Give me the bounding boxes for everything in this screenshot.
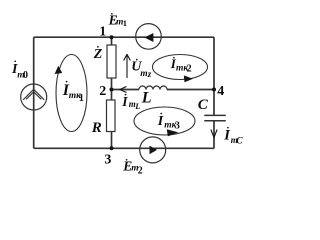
label I_mk1 mesh current	[62, 81, 84, 104]
source E_m1 circle (top)	[136, 24, 162, 50]
node 3 junction dot	[110, 146, 114, 150]
wire inductor to node4	[167, 89, 214, 91]
mesh loop 1 arrowhead	[55, 66, 63, 74]
node 4 junction dot	[212, 88, 216, 92]
label I_mk3 mesh current	[157, 113, 180, 132]
svg-text:3: 3	[104, 152, 111, 167]
svg-text:Z: Z	[93, 47, 103, 62]
svg-text:1: 1	[79, 93, 84, 104]
svg-text:0: 0	[23, 70, 28, 81]
mesh current loop 2 ellipse	[153, 55, 208, 80]
voltage arrow U_mz	[124, 54, 131, 78]
svg-text:L: L	[134, 101, 140, 111]
mesh current loop 3 ellipse	[134, 107, 195, 135]
svg-text:1: 1	[99, 24, 106, 39]
node 1 junction dot	[110, 35, 114, 39]
label I_mL	[121, 94, 140, 111]
svg-text:C: C	[236, 136, 243, 146]
wire top side	[34, 36, 214, 38]
source E_m1 arrow left	[144, 33, 153, 42]
svg-text:4: 4	[217, 84, 224, 99]
source E_m2 circle (bottom)	[140, 137, 166, 163]
wire node2 to inductor	[112, 89, 140, 91]
svg-text:2: 2	[138, 166, 143, 177]
inductor L coil	[139, 86, 167, 89]
label U_mz	[131, 59, 152, 79]
svg-text:2: 2	[187, 64, 192, 75]
svg-text:L: L	[141, 90, 152, 107]
svg-text:I: I	[157, 114, 164, 129]
wire bottom side	[34, 147, 214, 149]
capacitor C plates	[204, 115, 226, 120]
label E_m2	[122, 158, 143, 176]
mesh loop 2 arrowhead	[184, 75, 193, 82]
source E_m2 wire through	[140, 147, 166, 149]
mesh current loop 1 ellipse	[56, 55, 87, 132]
svg-text:R: R	[91, 120, 102, 136]
current source I_m0 circle (left)	[21, 84, 47, 110]
source E_m1 wire through	[136, 36, 162, 38]
wire R to node3	[111, 132, 113, 149]
svg-text:I: I	[121, 94, 128, 109]
label Z impedance	[93, 46, 103, 62]
current arrow I_mC on wire	[211, 130, 217, 138]
mesh loop 3 arrowhead	[167, 129, 179, 136]
svg-text:1: 1	[123, 18, 127, 28]
svg-text:z: z	[147, 69, 152, 79]
svg-text:3: 3	[175, 121, 180, 132]
resistor R box	[107, 100, 116, 132]
wire node1 to Z	[111, 37, 113, 45]
label I_m0	[11, 60, 28, 81]
impedance Z box	[107, 45, 116, 78]
svg-text:C: C	[198, 97, 209, 113]
label I_mk2 mesh current	[170, 56, 192, 75]
svg-text:2: 2	[99, 84, 106, 99]
wire right side lower (from capacitor)	[213, 121, 215, 149]
svg-text:m: m	[140, 69, 147, 79]
current source I_m0 double chevron	[23, 89, 44, 100]
wire Z to node2 to R	[111, 78, 113, 100]
current arrow I_mL on wire	[120, 87, 127, 93]
node 2 junction dot	[110, 88, 114, 92]
label E_m1	[108, 12, 127, 28]
source E_m2 arrow right	[150, 146, 158, 155]
label I_mC	[223, 127, 243, 147]
wire left side	[33, 37, 35, 148]
wire right side upper (to capacitor)	[213, 37, 215, 115]
